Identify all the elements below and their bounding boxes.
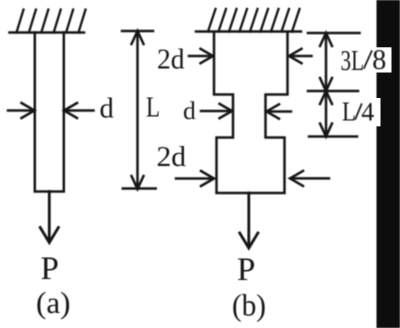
svg-text:3L: 3L (341, 46, 365, 77)
fixed support ceiling line (b) (196, 30, 301, 33)
load arrow P (b) (240, 193, 258, 248)
width arrow 2d bottom-right (b) (290, 171, 329, 186)
fixed support ceiling line (a) (10, 31, 85, 34)
bar (a) outline (35, 33, 64, 192)
svg-text:P: P (237, 252, 255, 288)
svg-text:d: d (100, 94, 114, 125)
svg-text:2d: 2d (157, 142, 187, 173)
svg-text:L: L (342, 96, 356, 126)
dimension line L (122, 31, 156, 189)
dimension L/4 right side (309, 91, 357, 137)
load arrow P (a) (40, 192, 58, 243)
dimension 3L/8 right side (308, 33, 360, 91)
hatching of support (b) (208, 9, 300, 32)
width arrow 2d top-right (b) (289, 49, 312, 63)
label L/4 (342, 96, 374, 126)
svg-text:4: 4 (361, 97, 374, 126)
width arrow d mid-right (b) (267, 104, 292, 118)
width arrow left (a) (8, 103, 35, 118)
svg-text:(b): (b) (232, 288, 266, 323)
svg-text:8: 8 (372, 45, 386, 76)
white label box 3L/8 (337, 47, 392, 72)
stepped bar (b) outline (214, 33, 288, 194)
svg-text:(a): (a) (36, 285, 70, 320)
width arrow 2d top-left (b) (189, 49, 213, 63)
black scan artifact bar right edge (377, 0, 400, 328)
label 3L/8 (341, 45, 387, 77)
width arrow 2d bottom-left (b) (176, 171, 214, 186)
width arrow d mid-left (b) (201, 104, 232, 118)
white label box L/4 (335, 98, 381, 126)
svg-text:d: d (183, 96, 196, 125)
hatching of support (a) (17, 10, 86, 33)
svg-text:L: L (146, 93, 160, 124)
svg-text:P: P (41, 251, 59, 287)
width arrow right (a) (64, 103, 94, 118)
svg-text:2d: 2d (157, 44, 185, 75)
